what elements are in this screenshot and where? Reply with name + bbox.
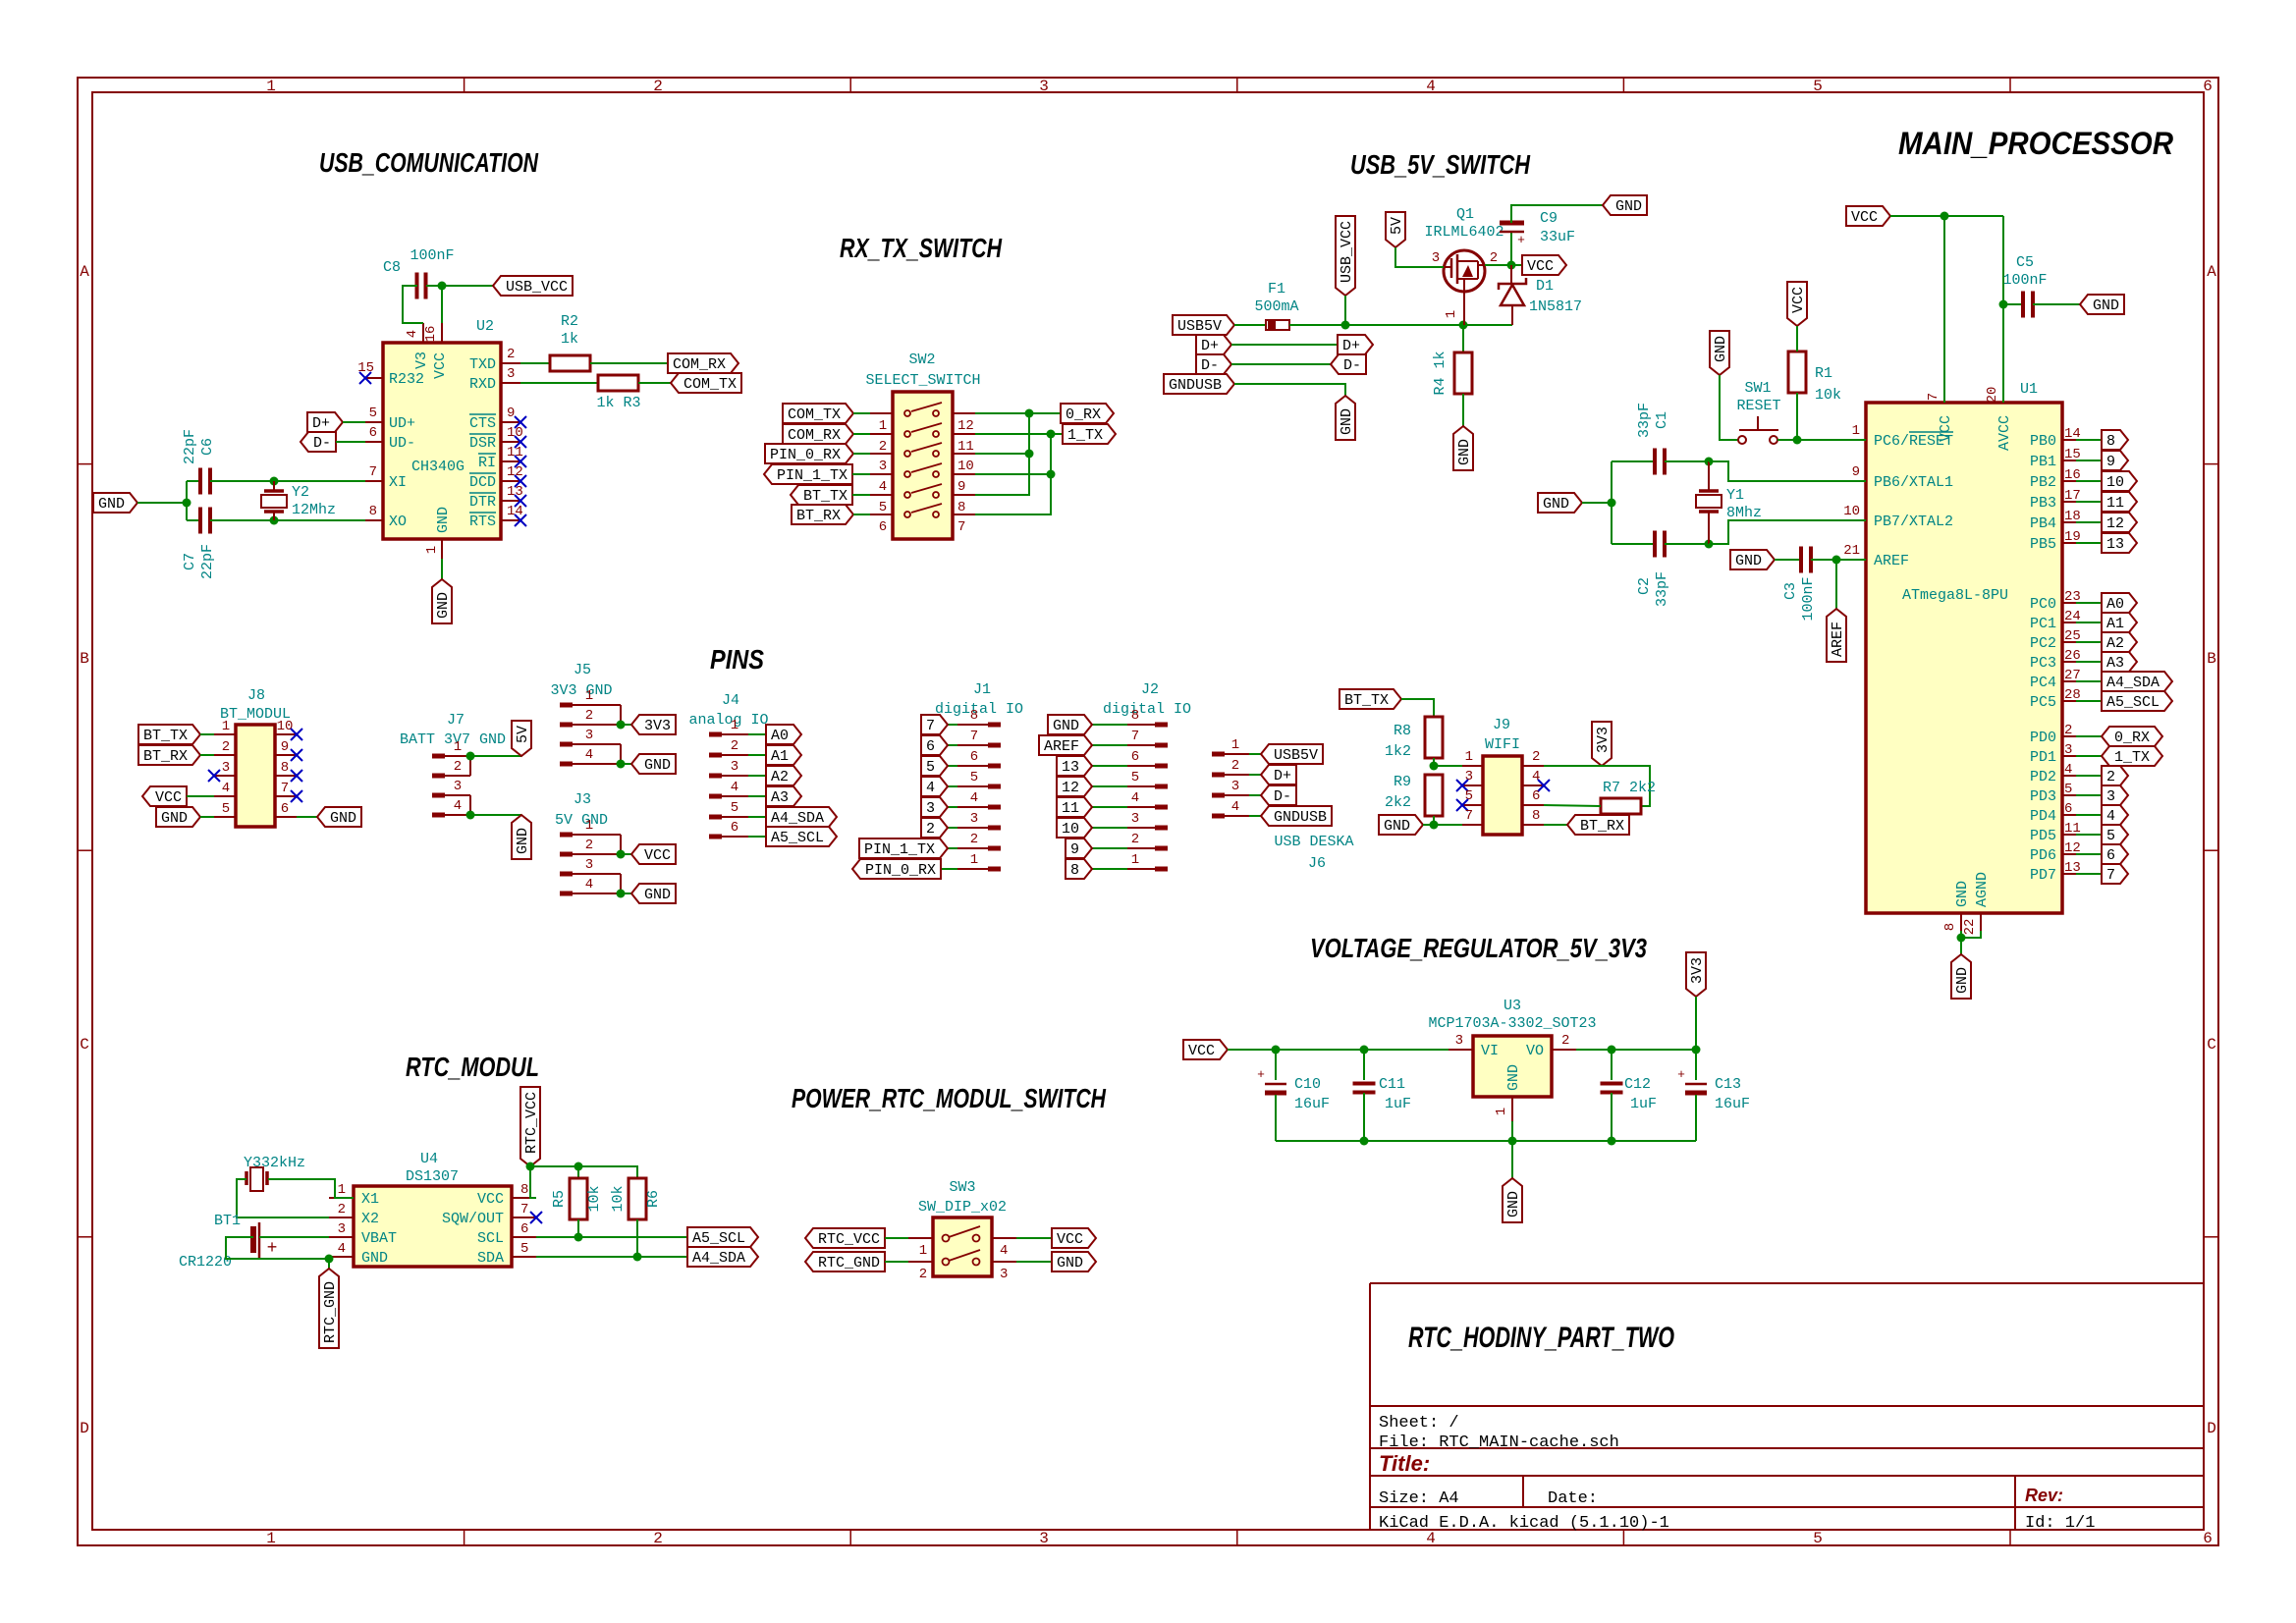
junction 0_RX b — [1025, 450, 1034, 459]
svg-text:UD-: UD- — [389, 435, 415, 452]
global label COM_RX (U2) — [668, 353, 738, 373]
wire U4 pin8 to RTC_VCC node — [530, 1166, 536, 1198]
svg-text:J2: J2 — [1141, 681, 1159, 698]
svg-text:33pF: 33pF — [1654, 571, 1670, 607]
J8 pin 7 — [275, 795, 297, 797]
global label 10 (J2) — [1057, 818, 1092, 838]
svg-text:5: 5 — [970, 770, 978, 785]
svg-text:COM_TX: COM_TX — [788, 406, 841, 423]
svg-text:100nF: 100nF — [2002, 272, 2047, 289]
global label GND (C3) — [1730, 550, 1775, 569]
J8 pin8 no-connect — [291, 770, 302, 782]
svg-text:DS1307: DS1307 — [406, 1168, 459, 1185]
global label 5 (PD5) — [2102, 825, 2128, 844]
U1 pin 17 PB3 — [2062, 501, 2076, 503]
svg-text:13: 13 — [1062, 759, 1079, 776]
wire BT_RX J8 — [200, 754, 214, 756]
svg-text:13: 13 — [2106, 536, 2124, 553]
svg-text:COM_RX: COM_RX — [673, 356, 726, 373]
global label BT_RX (J9) — [1567, 815, 1629, 835]
global label A3 (J4) — [766, 786, 801, 806]
resistor R3 — [598, 375, 638, 391]
global label A0 (PC0) — [2102, 593, 2137, 613]
svg-text:USB_VCC: USB_VCC — [506, 279, 568, 296]
resistor R2 — [550, 355, 590, 371]
svg-text:5: 5 — [926, 759, 935, 776]
svg-text:2: 2 — [919, 1267, 927, 1282]
svg-text:6: 6 — [369, 425, 377, 441]
global label USB5V (switch) — [1173, 315, 1234, 335]
wire cap-left vertical — [186, 481, 188, 520]
global label A5_SCL (U4) — [687, 1227, 758, 1247]
svg-text:A: A — [2207, 263, 2216, 281]
svg-text:4: 4 — [879, 479, 887, 495]
svg-text:4: 4 — [405, 330, 420, 338]
U4 pin7 no-connect — [530, 1212, 542, 1223]
svg-text:5: 5 — [1813, 1530, 1823, 1547]
J9 pin 5 — [1462, 804, 1483, 806]
svg-text:12: 12 — [1062, 780, 1079, 796]
wire USB_VCC label down — [1344, 296, 1346, 325]
SW2 pin 2 — [870, 433, 893, 435]
svg-text:13: 13 — [507, 484, 523, 500]
wire R4 to GND — [1462, 394, 1464, 426]
wire TXD to R2 — [520, 362, 550, 364]
capacitor C9 33uF — [1500, 221, 1524, 226]
svg-text:RTC_GND: RTC_GND — [818, 1255, 880, 1271]
svg-text:PC2: PC2 — [2030, 635, 2056, 652]
J9 pin 2 — [1522, 765, 1544, 767]
svg-text:AVCC: AVCC — [1996, 415, 2013, 451]
wire RTC_GND to SW3 — [885, 1261, 908, 1263]
svg-text:WIFI: WIFI — [1485, 736, 1520, 753]
global label 2 (PD2) — [2102, 766, 2128, 785]
wire Q1 node to R4 — [1462, 325, 1464, 352]
svg-text:Rev:: Rev: — [2025, 1486, 2063, 1505]
svg-text:6: 6 — [281, 801, 289, 817]
global label 6 (J1) — [921, 735, 948, 755]
wire junction to J9.7 — [1434, 824, 1462, 826]
svg-text:RXD: RXD — [469, 376, 496, 393]
svg-text:2: 2 — [507, 347, 515, 362]
wire junction to U2 pin16 — [441, 286, 443, 323]
wire J6 row0 — [1249, 753, 1261, 755]
wire J4 pin2 — [748, 754, 766, 756]
svg-text:8: 8 — [369, 504, 377, 519]
svg-text:XI: XI — [389, 474, 407, 491]
svg-text:1_TX: 1_TX — [1067, 427, 1103, 444]
global label A4_SDA (PC4) — [2102, 672, 2172, 691]
svg-text:PB3: PB3 — [2030, 495, 2056, 512]
svg-text:1_TX: 1_TX — [2114, 749, 2150, 766]
wire R9 to gnd row — [1433, 816, 1435, 825]
global label GND (C9) — [1603, 195, 1647, 215]
resistor R6 — [629, 1178, 646, 1219]
svg-text:1: 1 — [1231, 737, 1239, 753]
J9 pin 3 — [1462, 784, 1483, 786]
wire J6 row1 — [1249, 774, 1261, 776]
svg-text:4: 4 — [1000, 1243, 1008, 1259]
wire C12 down — [1611, 1093, 1613, 1141]
svg-text:VCC: VCC — [1527, 258, 1554, 275]
global label 1_TX (PD1) — [2102, 746, 2162, 766]
svg-text:SW_DIP_x02: SW_DIP_x02 — [918, 1199, 1007, 1216]
svg-text:3: 3 — [970, 811, 978, 827]
global label A1 (PC1) — [2102, 613, 2137, 632]
junction Y2 bottom — [270, 516, 279, 525]
svg-text:C12: C12 — [1624, 1076, 1651, 1093]
junction AREF — [1832, 556, 1841, 565]
switch SW3 body — [933, 1217, 992, 1276]
global label A2 (J4) — [766, 766, 801, 785]
junction RTC_VCC — [526, 1163, 535, 1171]
wire D- pair — [1231, 363, 1331, 365]
svg-text:PD5: PD5 — [2030, 828, 2056, 844]
svg-text:8: 8 — [520, 1182, 528, 1198]
wire J1 PIN_0_RX — [941, 868, 957, 870]
svg-text:VO: VO — [1526, 1043, 1544, 1059]
svg-text:8: 8 — [281, 760, 289, 776]
svg-text:9: 9 — [281, 739, 289, 755]
global label COM_TX (SW2) — [783, 404, 853, 423]
svg-text:A4_SDA: A4_SDA — [2106, 675, 2159, 691]
svg-text:Id: 1/1: Id: 1/1 — [2025, 1514, 2095, 1533]
svg-text:SW3: SW3 — [949, 1179, 975, 1196]
svg-text:PD4: PD4 — [2030, 808, 2056, 825]
capacitor C3 — [1799, 547, 1803, 573]
SW2 pin 6 — [870, 514, 893, 515]
U4 pin 7 SQW/OUT — [512, 1217, 536, 1218]
U2 pin 1 GND — [441, 539, 443, 559]
U1 pin 12 PD6 — [2062, 853, 2076, 855]
svg-text:GND: GND — [161, 810, 188, 827]
IC U2 CH340G body — [383, 343, 501, 539]
svg-text:GND: GND — [1505, 1191, 1522, 1217]
svg-text:RTS: RTS — [469, 514, 496, 530]
SW2 pin 5 — [870, 494, 893, 496]
svg-text:20: 20 — [1985, 387, 2000, 404]
wire C12 up — [1611, 1050, 1613, 1080]
svg-text:R9: R9 — [1394, 774, 1411, 790]
svg-text:PB1: PB1 — [2030, 454, 2056, 470]
vertical global label USB_VCC (switch) — [1336, 216, 1355, 296]
svg-text:XO: XO — [389, 514, 407, 530]
global label VCC (switch) — [1522, 255, 1566, 275]
svg-text:RTC_VCC: RTC_VCC — [523, 1092, 540, 1154]
vertical global label RTC_VCC — [520, 1087, 540, 1166]
wire PIN_1_TX to SW2.4 — [852, 473, 870, 475]
resistor R4 — [1454, 352, 1472, 394]
wire RXD to R3 — [520, 382, 598, 384]
junction rail C11 — [1360, 1137, 1369, 1146]
wire J3 to GND — [621, 893, 631, 894]
svg-text:CR1220: CR1220 — [179, 1254, 232, 1271]
svg-text:GND: GND — [1735, 553, 1762, 569]
global label D- (J6) — [1261, 785, 1296, 805]
wire BT1 plus to VBAT — [259, 1236, 329, 1238]
svg-text:USB_COMUNICATION: USB_COMUNICATION — [319, 147, 539, 178]
wire GND to junction — [1423, 824, 1434, 826]
wire Y3 to X1 — [268, 1179, 354, 1198]
global label D+ (left col) — [1196, 335, 1231, 354]
svg-text:4: 4 — [454, 798, 462, 814]
svg-text:6: 6 — [879, 519, 887, 535]
svg-text:RTC_VCC: RTC_VCC — [818, 1231, 880, 1248]
svg-text:C: C — [2207, 1036, 2216, 1054]
wire J4 pin5 — [748, 816, 766, 818]
svg-text:MAIN_PROCESSOR: MAIN_PROCESSOR — [1898, 126, 2173, 161]
wire J4 pin6 — [748, 836, 766, 838]
junction VCC top — [1941, 212, 1949, 221]
SW2 pin 8 — [953, 494, 975, 496]
svg-text:0_RX: 0_RX — [2114, 730, 2150, 746]
svg-text:6: 6 — [520, 1221, 528, 1237]
svg-text:Sheet: /: Sheet: / — [1379, 1414, 1459, 1433]
svg-text:VCC: VCC — [1851, 209, 1878, 226]
svg-text:2k2: 2k2 — [1385, 794, 1411, 811]
global label 0_RX (PD0) — [2102, 727, 2162, 746]
svg-text:Y1: Y1 — [1726, 487, 1744, 504]
svg-text:VCC: VCC — [477, 1191, 504, 1208]
svg-text:C: C — [80, 1036, 89, 1054]
U4 pin 1 X1 — [329, 1197, 354, 1199]
wire R7 to J9.6 — [1544, 805, 1601, 806]
junction C5 — [1999, 300, 2008, 309]
wire D+ pair — [1231, 344, 1338, 346]
svg-text:TXD: TXD — [469, 356, 496, 373]
svg-text:analog IO: analog IO — [688, 712, 768, 729]
svg-text:Size: A4: Size: A4 — [1379, 1489, 1459, 1508]
svg-text:3V3: 3V3 — [644, 718, 671, 734]
svg-text:8: 8 — [970, 708, 978, 724]
wire GND drop — [1960, 931, 1962, 954]
capacitor C12 — [1601, 1082, 1623, 1086]
wire C8 right to junction — [426, 285, 442, 287]
capacitor C2 — [1653, 531, 1657, 558]
svg-text:C11: C11 — [1379, 1076, 1405, 1093]
svg-text:AREF: AREF — [1874, 553, 1909, 569]
svg-text:3: 3 — [507, 366, 515, 382]
svg-text:VCC: VCC — [155, 789, 182, 806]
wire R6 to SDA — [636, 1219, 638, 1257]
svg-text:3V3: 3V3 — [1689, 957, 1706, 984]
svg-text:GND: GND — [1615, 198, 1642, 215]
junction Y1 bottom — [1705, 540, 1714, 549]
junction Y1 top — [1705, 458, 1714, 466]
svg-text:DSR: DSR — [469, 435, 496, 452]
svg-text:8: 8 — [1131, 708, 1139, 724]
svg-text:GND: GND — [644, 887, 671, 903]
global label A5_SCL (PC5) — [2102, 691, 2172, 711]
svg-text:11: 11 — [2106, 495, 2124, 512]
transistor Q1 IRLML6402 — [1444, 250, 1485, 292]
svg-text:GND: GND — [1505, 1064, 1522, 1091]
junction 0_RX a — [1025, 409, 1034, 418]
wire C11 up — [1363, 1050, 1365, 1080]
IC U1 ATmega8L-8PU body — [1866, 403, 2062, 913]
svg-text:VI: VI — [1481, 1043, 1499, 1059]
global label GND (J8 right) — [317, 807, 361, 827]
wire C10 up — [1275, 1050, 1277, 1080]
resistor R5 — [570, 1178, 587, 1219]
svg-text:RESET: RESET — [1736, 398, 1780, 414]
svg-text:USB_5V_SWITCH: USB_5V_SWITCH — [1350, 149, 1531, 180]
global label 6 (PD6) — [2102, 844, 2128, 864]
global label A4_SDA (U4) — [687, 1247, 758, 1267]
svg-text:+: + — [267, 1239, 278, 1259]
svg-text:3: 3 — [926, 800, 935, 817]
svg-text:0_RX: 0_RX — [1066, 406, 1101, 423]
svg-text:2: 2 — [1231, 758, 1239, 774]
wire J4 pin3 — [748, 775, 766, 777]
global label D+ (U2) — [307, 412, 343, 432]
svg-text:C7: C7 — [182, 553, 198, 570]
wire C1 to Y1 node — [1665, 460, 1709, 462]
svg-text:A4_SDA: A4_SDA — [692, 1250, 745, 1267]
capacitor C13 16uF polarized — [1685, 1083, 1707, 1086]
svg-text:PIN_0_RX: PIN_0_RX — [770, 447, 841, 463]
wire junction to U4 pin4 — [328, 1257, 330, 1259]
wire C9 up — [1510, 232, 1512, 265]
svg-text:PD6: PD6 — [2030, 847, 2056, 864]
wire AREF label drop — [1835, 560, 1837, 609]
svg-text:22: 22 — [1962, 919, 1978, 936]
U2 pin 8 XO — [365, 519, 383, 521]
global label A0 (J4) — [766, 725, 801, 744]
svg-text:1: 1 — [1444, 310, 1459, 318]
svg-text:SW1: SW1 — [1744, 380, 1771, 397]
global label 4 (PD4) — [2102, 805, 2128, 825]
svg-text:1uF: 1uF — [1630, 1096, 1657, 1112]
SW3 pin 1 — [908, 1237, 933, 1239]
svg-text:11: 11 — [1062, 800, 1079, 817]
global label 13 (J2) — [1057, 756, 1092, 776]
connector J8 body — [236, 725, 275, 827]
switch SW2 body — [893, 392, 953, 539]
svg-text:6: 6 — [926, 738, 935, 755]
wire C7 to XO — [210, 519, 365, 521]
U2 pin 11 RI no-connect — [501, 460, 520, 462]
svg-text:3: 3 — [1455, 1033, 1463, 1049]
svg-text:3: 3 — [879, 459, 887, 474]
junction VCC node — [1507, 261, 1516, 270]
svg-text:SW2: SW2 — [908, 352, 935, 368]
svg-text:A: A — [80, 263, 89, 281]
svg-text:5: 5 — [879, 500, 887, 515]
wire J2 row2 — [1092, 765, 1127, 767]
wire SW1 to U1 pin1 — [1777, 439, 1866, 441]
svg-text:VOLTAGE_REGULATOR_5V_3V3: VOLTAGE_REGULATOR_5V_3V3 — [1310, 933, 1647, 963]
J8 pin 2 — [214, 754, 236, 756]
svg-text:15: 15 — [2064, 447, 2081, 462]
svg-text:1k R3: 1k R3 — [596, 395, 640, 411]
svg-text:A3: A3 — [2106, 655, 2124, 672]
wire Y3 to X2 — [237, 1179, 329, 1217]
svg-text:GND: GND — [330, 810, 356, 827]
svg-text:PD3: PD3 — [2030, 788, 2056, 805]
junction Y2 top — [270, 477, 279, 486]
svg-text:3: 3 — [731, 759, 738, 775]
global label 12 (PB4) — [2102, 513, 2137, 532]
svg-text:BT_TX: BT_TX — [143, 728, 188, 744]
connector J5 pins — [560, 703, 573, 708]
J8 pin 3 — [214, 775, 236, 777]
wire SW3 to GND — [1016, 1261, 1052, 1263]
svg-text:IRLML6402: IRLML6402 — [1424, 224, 1503, 241]
wire J4 pin4 — [748, 795, 766, 797]
wire U3 pin1 to rail — [1511, 1121, 1513, 1141]
svg-text:A5_SCL: A5_SCL — [2106, 694, 2159, 711]
U1 pin 6 PD4 — [2062, 814, 2076, 816]
junction R5 top — [574, 1163, 583, 1171]
global label AREF (J2) — [1039, 735, 1092, 755]
svg-text:8Mhz: 8Mhz — [1726, 505, 1762, 521]
svg-text:BT_TX: BT_TX — [803, 488, 847, 505]
svg-text:8: 8 — [1532, 808, 1540, 824]
svg-text:17: 17 — [2064, 488, 2081, 504]
global label 9 (J2) — [1066, 839, 1092, 858]
svg-text:2: 2 — [970, 832, 978, 847]
J8 pin9 no-connect — [291, 749, 302, 761]
svg-text:RI: RI — [478, 455, 496, 471]
svg-text:5: 5 — [1813, 78, 1823, 95]
svg-text:3: 3 — [1039, 78, 1049, 95]
svg-text:5: 5 — [2106, 828, 2115, 844]
wire C8 left to U2 pin4 — [403, 286, 423, 323]
global label BT_TX (J8) — [138, 725, 200, 744]
svg-text:ATmega8L-8PU: ATmega8L-8PU — [1902, 587, 2008, 604]
global label VCC (J8) — [142, 786, 187, 806]
wire C13 down — [1695, 1095, 1697, 1141]
SW2 pin 7 — [953, 514, 975, 515]
junction C10 top — [1272, 1046, 1281, 1055]
junction rail U3 — [1508, 1137, 1517, 1146]
svg-text:7: 7 — [1131, 729, 1139, 744]
global label 10 (PB2) — [2102, 471, 2137, 491]
wire J7 to GND — [470, 814, 521, 816]
power label GND (U1 bottom) — [1951, 954, 1971, 999]
wire junction to J9.1 — [1434, 765, 1462, 767]
svg-text:J8: J8 — [247, 687, 265, 704]
global label VCC (U3) — [1183, 1040, 1228, 1059]
svg-text:5V: 5V — [1389, 217, 1405, 235]
U1 pin 2 PD0 — [2062, 735, 2076, 737]
svg-text:2: 2 — [926, 821, 935, 838]
svg-text:3: 3 — [1000, 1267, 1008, 1282]
wire AGND join — [1961, 931, 1981, 938]
wire SDA row — [536, 1256, 687, 1258]
svg-text:VCC: VCC — [1188, 1043, 1215, 1059]
J8 pin 6 — [275, 816, 297, 818]
junction R8/R9 — [1430, 762, 1439, 771]
svg-text:6: 6 — [970, 749, 978, 765]
wire VCC node down to D1 — [1510, 265, 1512, 283]
svg-text:8: 8 — [1942, 923, 1958, 931]
wire J2 row4 — [1092, 806, 1127, 808]
svg-text:7: 7 — [957, 519, 965, 535]
svg-text:C8: C8 — [383, 259, 401, 276]
svg-text:BT_TX: BT_TX — [1344, 692, 1389, 709]
svg-text:16uF: 16uF — [1294, 1096, 1330, 1112]
junction C11 top — [1360, 1046, 1369, 1055]
svg-text:4: 4 — [585, 747, 593, 763]
svg-text:VCC: VCC — [1057, 1231, 1083, 1248]
svg-text:9: 9 — [1852, 464, 1860, 480]
J8 pin 9 — [275, 754, 297, 756]
svg-text:GND: GND — [361, 1250, 388, 1267]
wire J8 pin6 to GND — [297, 816, 317, 818]
power label GND (U2) — [432, 579, 452, 623]
